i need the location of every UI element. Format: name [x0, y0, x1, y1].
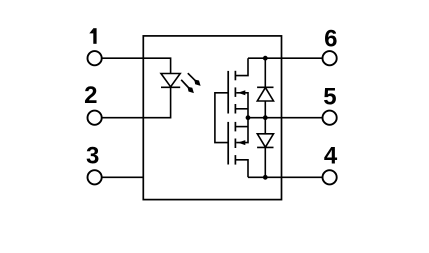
svg-text:4: 4 [324, 143, 338, 170]
diode D3 triangle (pointing down) [257, 134, 273, 147]
LED light arrow lower [181, 80, 194, 93]
LED D1 cathode bar [161, 86, 180, 88]
wire LED cathode to pin2 [102, 87, 171, 117]
wire mid node to pin 5 [248, 117, 323, 119]
diode D3 cathode bar [257, 146, 273, 148]
terminal circle pin 6 [323, 51, 337, 65]
wire diode column top segment [264, 58, 266, 87]
MOSFET Q1 channel segment source [234, 104, 236, 114]
wire diode column bottom segment [264, 147, 266, 177]
terminal circle pin 3 [88, 170, 102, 184]
terminal circle pin 4 [323, 170, 337, 184]
MOSFET Q2 source stub [235, 126, 248, 128]
LED light arrow upper [188, 73, 201, 86]
MOSFET Q2 body arrow (N-channel) [238, 140, 246, 145]
svg-text:6: 6 [324, 25, 337, 52]
MOSFET Q1 body arrow (N-channel) [238, 90, 246, 95]
diode D2 cathode bar [257, 86, 273, 88]
svg-text:3: 3 [86, 143, 99, 170]
LED D1 triangle (anode top) [161, 74, 180, 87]
wire bottom node to pin 4 [248, 176, 323, 178]
terminal circle pin 5 [323, 111, 337, 125]
wire diode column middle segment [264, 101, 266, 134]
MOSFET Q2 drain stub and riser to bottom node [235, 160, 248, 178]
pin label 1 [89, 28, 96, 44]
MOSFET Q2 channel segment body [234, 139, 236, 149]
MOSFET Q2 gate bar [227, 122, 229, 165]
junction dot mid node at source riser [246, 115, 251, 120]
MOSFET Q1 drain stub and riser to top node [235, 58, 248, 75]
MOSFET Q2 channel segment source [234, 122, 236, 131]
MOSFET Q1 channel segment drain [234, 71, 236, 81]
junction dot top node [263, 56, 268, 61]
MOSFET Q2 channel segment drain [234, 155, 236, 165]
diode D2 triangle (pointing up) [257, 88, 273, 101]
svg-text:5: 5 [323, 84, 336, 111]
junction dot mid node at diode column [263, 115, 268, 120]
gate drive bracket wire (gates of Q1,Q2 tied) [215, 93, 228, 143]
junction dot bottom node [263, 175, 268, 180]
MOSFET Q1 source stub [235, 108, 248, 110]
svg-text:2: 2 [84, 82, 97, 109]
terminal circle pin 2 [88, 111, 102, 125]
MOSFET Q1 gate bar [227, 71, 229, 114]
MOSFET Q2 body stub with riser to mid node [236, 118, 248, 143]
MOSFET Q1 body stub with riser to mid node [236, 93, 248, 118]
device outline (PhotoMOS relay body) [143, 36, 281, 200]
wire pin3 to body [102, 176, 143, 178]
MOSFET Q1 channel segment body [234, 87, 236, 97]
terminal circle pin 1 [88, 51, 102, 65]
wire top node to pin 6 [248, 57, 323, 59]
wire pin1 to LED anode [102, 58, 171, 73]
